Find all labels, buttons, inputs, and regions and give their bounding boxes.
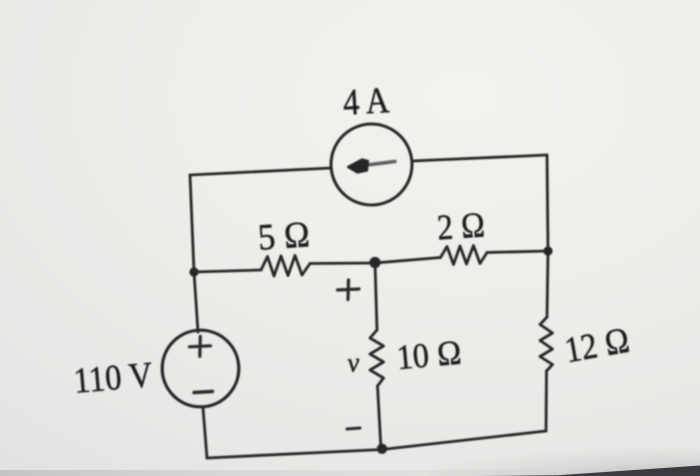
svg-text:5 Ω: 5 Ω [257,214,312,259]
dark table edge bottom-right [480,466,700,476]
faint bottom edge shading [0,470,700,476]
resistor R1 5-ohm zigzag [261,256,310,277]
wire 2-ohm to right node [487,251,548,253]
resistor R3 10-ohm zigzag [370,330,384,386]
junction node middle bottom [377,444,387,454]
polarity minus of v [347,428,360,429]
current source arrow shaft [363,162,395,166]
wire bottom [207,431,546,458]
svg-text:110 V: 110 V [72,354,154,401]
wire top-left horizontal [190,168,331,175]
polarity plus of v [338,280,360,300]
wire right vertical upper [547,155,548,317]
wire middle vertical lower [378,386,382,449]
current source arrow head [348,160,368,173]
junction node middle top [369,257,380,268]
wire middle vertical upper [375,263,377,330]
wire middle node to 2-ohm [375,258,441,264]
current source I1 circle [331,124,412,205]
junction node left [189,267,198,276]
voltage source V1 circle [162,330,239,407]
voltage source plus [190,337,211,357]
wire 5-ohm to middle node [310,262,375,265]
wire top-right horizontal [412,155,547,161]
wire right vertical lower [545,371,548,431]
soft shadow above table edge [430,446,700,476]
resistor R2 2-ohm zigzag [441,246,488,265]
wire left vertical [190,175,198,332]
junction node right [543,246,552,255]
resistor R4 12-ohm zigzag [540,317,553,371]
svg-text:2 Ω: 2 Ω [436,204,487,247]
svg-text:10 Ω: 10 Ω [395,333,463,378]
voltage source minus [194,392,213,393]
wire below voltage source [203,408,207,458]
svg-text:4 A: 4 A [342,80,391,124]
wire middle-left to 5-ohm [194,270,261,272]
